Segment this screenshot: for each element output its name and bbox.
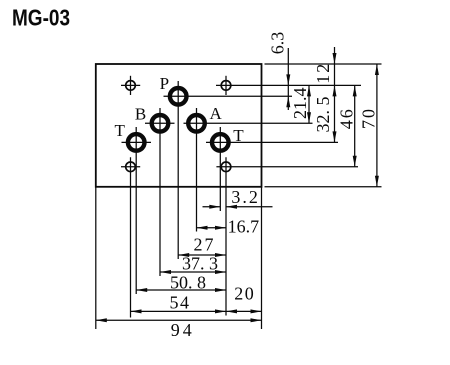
svg-text:21.4: 21.4 [290,88,310,120]
svg-text:70: 70 [359,107,379,129]
svg-text:16.7: 16.7 [228,216,260,236]
svg-text:50. 8: 50. 8 [170,272,206,292]
svg-text:46: 46 [336,107,356,129]
svg-text:B: B [135,104,146,123]
svg-text:32. 5: 32. 5 [313,97,333,133]
svg-text:T: T [233,126,244,145]
svg-text:12: 12 [313,62,333,84]
svg-text:27: 27 [194,234,216,254]
svg-text:A: A [209,104,222,123]
svg-text:20: 20 [234,284,255,304]
svg-text:P: P [160,74,169,93]
svg-text:54: 54 [170,293,191,313]
svg-text:MG-03: MG-03 [12,5,70,31]
svg-text:T: T [115,121,126,140]
svg-text:94: 94 [171,320,195,340]
svg-text:6.3: 6.3 [268,32,288,55]
svg-text:3.2: 3.2 [231,187,260,207]
svg-text:37. 3: 37. 3 [182,254,218,274]
